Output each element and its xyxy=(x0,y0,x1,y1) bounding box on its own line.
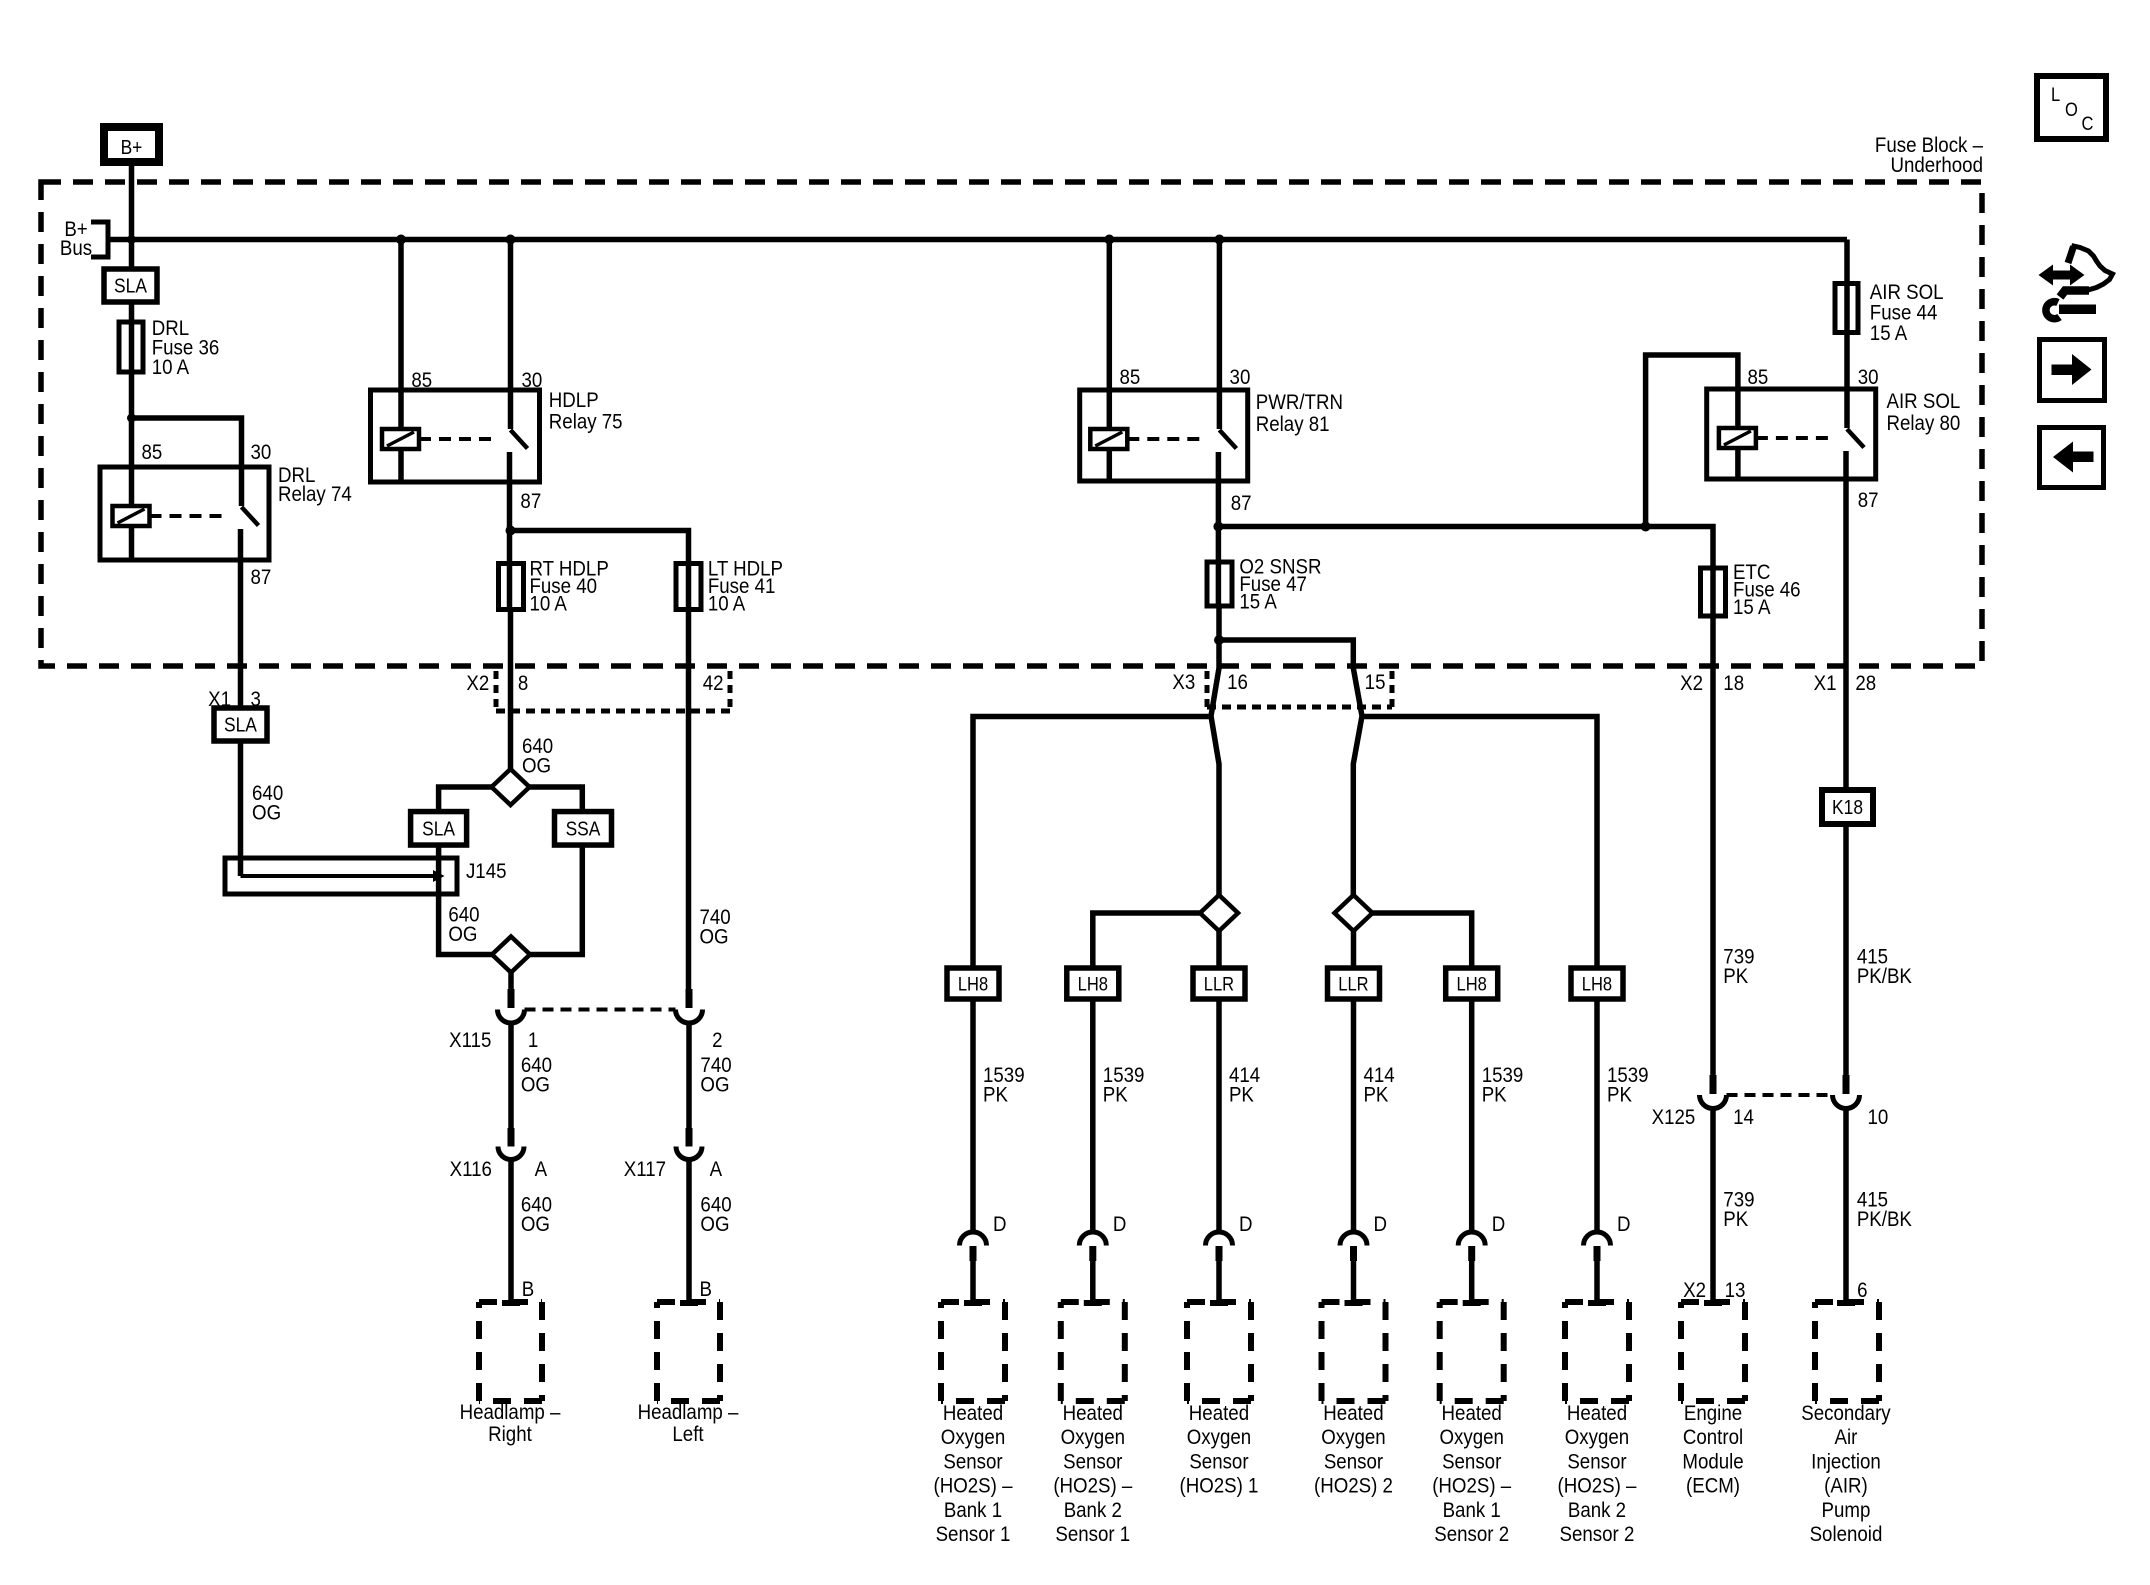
component HO2S dashed box col1 xyxy=(941,1299,1005,1305)
svg-text:(HO2S) –: (HO2S) – xyxy=(1053,1474,1133,1497)
wire end at headlamp right xyxy=(502,1300,520,1306)
svg-text:OG: OG xyxy=(700,1073,729,1096)
svg-text:A: A xyxy=(710,1158,723,1181)
svg-text:LH8: LH8 xyxy=(958,973,988,994)
svg-text:AIR SOL: AIR SOL xyxy=(1887,390,1961,413)
fuse RT HDLP Fuse 40 xyxy=(499,564,524,610)
wire ETC fuse down to X125-14 xyxy=(1710,617,1716,1076)
svg-text:30: 30 xyxy=(1230,366,1251,389)
wire X117 to headlamp left xyxy=(686,1160,692,1303)
svg-text:Oxygen: Oxygen xyxy=(1439,1426,1503,1449)
wire AIR SOL relay 87 down to X125-10 xyxy=(1843,479,1849,1076)
svg-text:B+: B+ xyxy=(121,136,143,158)
svg-text:HDLP: HDLP xyxy=(549,389,599,412)
svg-text:87: 87 xyxy=(1858,489,1879,512)
svg-text:Headlamp –: Headlamp – xyxy=(638,1401,740,1424)
svg-text:LH8: LH8 xyxy=(1457,973,1487,994)
svg-text:Bank 2: Bank 2 xyxy=(1064,1499,1122,1522)
svg-text:Headlamp –: Headlamp – xyxy=(460,1401,562,1424)
fuse O2 SNSR Fuse 47 xyxy=(1207,562,1232,606)
svg-text:Relay 81: Relay 81 xyxy=(1256,413,1330,436)
svg-text:Heated: Heated xyxy=(1567,1402,1627,1425)
svg-text:10 A: 10 A xyxy=(529,593,567,616)
component Headlamp - Left (dashed) xyxy=(657,1299,720,1305)
svg-text:B: B xyxy=(522,1278,534,1301)
relay AIR SOL Relay 80 coil wire (pin 85) xyxy=(1735,389,1741,428)
wire D connector to sensor box col4 xyxy=(1351,1261,1357,1302)
splice diamond B (640 OG) xyxy=(492,937,530,973)
connector D col5 female terminal xyxy=(1458,1232,1485,1246)
wire PWR/TRN 87 junction to AIR SOL coil branch xyxy=(1218,524,1645,530)
relay HDLP Relay 75 switch output contact (pin 87) xyxy=(507,452,513,482)
svg-text:OG: OG xyxy=(700,1213,729,1236)
wire diamond C down to LLR xyxy=(1216,931,1222,968)
svg-text:LH8: LH8 xyxy=(1078,973,1108,994)
wire SLA to DRL fuse and relay pin 85 xyxy=(129,302,135,467)
svg-text:30: 30 xyxy=(250,441,271,464)
connector D col5 male terminal xyxy=(1468,1246,1475,1261)
svg-text:(ECM): (ECM) xyxy=(1686,1474,1740,1497)
relay PWR/TRN Relay 81 switch blade xyxy=(1219,430,1236,449)
svg-text:Bus: Bus xyxy=(60,237,92,260)
wire D connector to sensor box col6 xyxy=(1594,1261,1600,1302)
svg-text:D: D xyxy=(1113,1213,1127,1236)
component HO2S dashed box col4 xyxy=(1322,1299,1386,1305)
node PWR/TRN 87 junction xyxy=(1213,522,1223,532)
wire bus to HDLP relay pin 30 xyxy=(508,240,514,391)
connector X115 pin 2 female terminal xyxy=(676,1010,703,1024)
svg-text:SLA: SLA xyxy=(422,817,455,839)
svg-text:Underhood: Underhood xyxy=(1890,154,1983,177)
wire LH8 col5 down to D connector xyxy=(1469,999,1475,1231)
svg-text:SSA: SSA xyxy=(566,817,601,839)
svg-text:(HO2S) –: (HO2S) – xyxy=(1432,1474,1512,1497)
wire X3-16 branch left to HO2S bank1 sensor1 xyxy=(973,717,1211,969)
svg-text:K18: K18 xyxy=(1832,796,1863,818)
component-view icon (arrows and wrench) xyxy=(2039,246,2113,319)
svg-text:OG: OG xyxy=(252,801,281,824)
wire diamond A left branch to SLA xyxy=(439,787,492,814)
wire end at sensor col2 xyxy=(1084,1300,1102,1306)
svg-text:LLR: LLR xyxy=(1204,973,1234,994)
J145 internal bus bar xyxy=(241,874,438,878)
svg-text:Bank 1: Bank 1 xyxy=(944,1499,1002,1522)
wire D connector to sensor box col5 xyxy=(1469,1261,1475,1302)
relay DRL Relay 74 box xyxy=(100,467,269,560)
B+ power terminal xyxy=(104,127,159,162)
svg-text:15 A: 15 A xyxy=(1239,591,1277,614)
wire end at sensor col6 xyxy=(1588,1300,1606,1306)
svg-text:Heated: Heated xyxy=(943,1402,1003,1425)
fuse ETC Fuse 46 xyxy=(1701,568,1726,616)
svg-text:15 A: 15 A xyxy=(1870,322,1908,345)
svg-text:30: 30 xyxy=(1858,366,1879,389)
svg-text:Sensor: Sensor xyxy=(1567,1450,1627,1473)
wire O2 fuse down to X3-16 xyxy=(1211,606,1219,896)
svg-text:Heated: Heated xyxy=(1189,1402,1249,1425)
svg-text:Solenoid: Solenoid xyxy=(1810,1523,1883,1546)
svg-text:OG: OG xyxy=(521,1213,550,1236)
harness code box LH8 col1 xyxy=(947,968,999,999)
node DRL fuse branch xyxy=(127,414,136,423)
svg-text:PK: PK xyxy=(1607,1083,1632,1106)
connector X115 pin 1 female terminal xyxy=(498,1010,525,1024)
svg-text:PWR/TRN: PWR/TRN xyxy=(1256,391,1343,414)
svg-text:X115: X115 xyxy=(449,1029,491,1052)
svg-text:PK/BK: PK/BK xyxy=(1857,965,1913,988)
wire PWR/TRN junction up to AIR SOL relay pin 85 xyxy=(1646,355,1738,527)
svg-text:Control: Control xyxy=(1683,1426,1743,1449)
svg-text:85: 85 xyxy=(1747,366,1768,389)
svg-text:15 A: 15 A xyxy=(1733,596,1771,619)
relay AIR SOL Relay 80 coil wire below xyxy=(1735,448,1741,479)
svg-text:15: 15 xyxy=(1365,671,1386,694)
svg-text:OG: OG xyxy=(699,925,728,948)
svg-text:Bank 2: Bank 2 xyxy=(1568,1499,1626,1522)
svg-text:Relay 80: Relay 80 xyxy=(1887,412,1961,435)
SLA box lower xyxy=(214,708,267,741)
connector X3 dashed box xyxy=(1205,671,1210,707)
svg-text:X116: X116 xyxy=(450,1158,492,1181)
node bus / PWRTRN 30 xyxy=(1214,235,1224,245)
component HO2S dashed box col3 xyxy=(1187,1299,1251,1305)
harness code box LLR col4 xyxy=(1328,968,1380,999)
wire end at sensor col1 xyxy=(964,1300,982,1306)
wire D connector to sensor box col1 xyxy=(970,1261,976,1302)
svg-text:D: D xyxy=(993,1213,1007,1236)
svg-text:PK: PK xyxy=(983,1083,1008,1106)
connector D col3 female terminal xyxy=(1206,1232,1233,1246)
fuse AIR SOL Fuse 44 xyxy=(1835,284,1858,333)
wire RT HDLP fuse to splice diamond A xyxy=(508,612,514,772)
svg-text:87: 87 xyxy=(1231,492,1252,515)
component Engine Control Module (dashed) xyxy=(1681,1299,1745,1305)
svg-text:D: D xyxy=(1373,1213,1387,1236)
SLA box upper xyxy=(104,269,157,302)
connector X115 pin 1 male terminal xyxy=(508,989,515,1008)
component HO2S dashed box col5 xyxy=(1440,1299,1504,1305)
relay PWR/TRN Relay 81 coil xyxy=(1090,429,1127,449)
relay HDLP Relay 75 coil xyxy=(382,429,419,449)
relay PWR/TRN Relay 81 coil wire (pin 85) xyxy=(1107,390,1113,429)
svg-text:Pump: Pump xyxy=(1822,1499,1871,1522)
svg-text:LH8: LH8 xyxy=(1582,973,1612,994)
svg-text:LLR: LLR xyxy=(1338,973,1368,994)
SLA box splice xyxy=(411,812,467,846)
connector X125 pin 10 female terminal xyxy=(1833,1095,1860,1109)
connector D col4 male terminal xyxy=(1350,1246,1357,1261)
wire X3-15 branch right to HO2S bank2 sensor2 xyxy=(1362,717,1597,969)
svg-text:Oxygen: Oxygen xyxy=(941,1426,1005,1449)
svg-text:(AIR): (AIR) xyxy=(1824,1474,1868,1497)
relay DRL Relay 74 coil xyxy=(113,506,150,526)
connector X125 pin 14 female terminal xyxy=(1700,1095,1727,1109)
svg-text:Sensor: Sensor xyxy=(1063,1450,1123,1473)
wire end at sensor col5 xyxy=(1463,1300,1481,1306)
forward arrow legend box xyxy=(2040,340,2105,401)
wire X116 to headlamp right xyxy=(508,1160,514,1303)
relay DRL Relay 74 coil wire below xyxy=(129,526,135,560)
svg-text:87: 87 xyxy=(520,490,541,513)
svg-text:2: 2 xyxy=(712,1029,722,1052)
wire bus to HDLP relay pin 85 xyxy=(398,240,404,391)
svg-text:X1: X1 xyxy=(1814,672,1837,695)
svg-text:Module: Module xyxy=(1682,1450,1743,1473)
svg-text:X2: X2 xyxy=(466,672,489,695)
component HO2S dashed box col6 xyxy=(1565,1299,1629,1305)
svg-text:Sensor: Sensor xyxy=(1324,1450,1384,1473)
relay HDLP Relay 75 coil wire (pin 85) xyxy=(398,390,404,429)
LOC legend box xyxy=(2037,76,2106,139)
svg-text:Sensor: Sensor xyxy=(1442,1450,1502,1473)
svg-text:Oxygen: Oxygen xyxy=(1321,1426,1385,1449)
svg-text:(HO2S) 2: (HO2S) 2 xyxy=(1314,1474,1393,1497)
svg-text:Heated: Heated xyxy=(1063,1402,1123,1425)
connector X115 dashed pairing line xyxy=(525,1008,676,1012)
connector D col6 female terminal xyxy=(1584,1232,1611,1246)
wire LH8 col6 down to D connector xyxy=(1594,999,1600,1231)
connector X125 dashed pairing line xyxy=(1727,1093,1834,1097)
component Secondary Air Injection Pump Solenoid (dashed) xyxy=(1815,1299,1879,1305)
wire diamond D right branch to LH8 (bank1 sensor2) xyxy=(1373,913,1472,968)
relay PWR/TRN Relay 81 box xyxy=(1080,390,1248,481)
wire LH8 col2 down to D connector xyxy=(1090,999,1096,1231)
svg-text:1: 1 xyxy=(528,1029,538,1052)
relay PWR/TRN Relay 81 switch fixed contact (pin 30) xyxy=(1217,390,1223,429)
B+ Bus bracket symbol xyxy=(91,222,108,257)
SSA box splice xyxy=(555,812,612,846)
svg-text:85: 85 xyxy=(141,441,162,464)
svg-text:A: A xyxy=(535,1158,548,1181)
wire DRL relay 87 down to X1-3 xyxy=(238,560,244,711)
svg-text:Sensor: Sensor xyxy=(1189,1450,1249,1473)
svg-text:Air: Air xyxy=(1835,1426,1858,1449)
relay DRL Relay 74 switch blade xyxy=(242,507,259,526)
svg-text:D: D xyxy=(1239,1213,1253,1236)
svg-text:Relay 74: Relay 74 xyxy=(278,483,352,506)
J145 arrow to output xyxy=(433,870,445,882)
svg-text:10: 10 xyxy=(1868,1106,1889,1129)
svg-text:18: 18 xyxy=(1723,672,1744,695)
wire end at ECM xyxy=(1704,1300,1722,1306)
relay HDLP Relay 75 dashed actuator link xyxy=(419,437,497,441)
wire X125-14 to ECM xyxy=(1710,1109,1716,1303)
harness code box LH8 col6 xyxy=(1571,968,1623,999)
wire B+ bus horizontal xyxy=(108,237,1847,243)
wire SSA splice down to diamond B xyxy=(530,845,583,955)
wire B+ terminal down to B+ bus xyxy=(129,160,135,272)
wire end at sensor col4 xyxy=(1345,1300,1363,1306)
svg-text:B: B xyxy=(700,1278,712,1301)
svg-text:42: 42 xyxy=(703,672,724,695)
relay DRL Relay 74 dashed actuator link xyxy=(150,514,228,518)
wire LT HDLP fuse down to X115 pin 2 xyxy=(686,612,692,990)
connector D col6 male terminal xyxy=(1594,1246,1601,1261)
relay PWR/TRN Relay 81 coil wire below xyxy=(1107,449,1113,481)
connector D col1 female terminal xyxy=(960,1232,987,1246)
connector X116 male terminal xyxy=(508,1128,515,1147)
svg-text:13: 13 xyxy=(1725,1279,1746,1302)
connector X117 female terminal xyxy=(676,1147,702,1160)
svg-text:X117: X117 xyxy=(624,1158,666,1181)
node HDLP relay 87 junction xyxy=(506,526,516,536)
relay HDLP Relay 75 coil wire below xyxy=(398,449,404,482)
K18 box xyxy=(1822,790,1873,824)
wire end at sensor col3 xyxy=(1210,1300,1228,1306)
relay AIR SOL Relay 80 switch fixed contact (pin 30) xyxy=(1844,389,1850,428)
wire SLA lower to J145 xyxy=(238,741,244,876)
wire X125-10 to AIR pump solenoid xyxy=(1843,1109,1849,1303)
relay HDLP Relay 75 switch blade xyxy=(511,430,528,449)
svg-text:PK: PK xyxy=(1482,1083,1507,1106)
relay AIR SOL Relay 80 switch blade xyxy=(1847,429,1864,448)
node AIR SOL coil / ETC junction xyxy=(1641,522,1651,532)
relay HDLP Relay 75 box xyxy=(371,390,540,482)
svg-text:Sensor 1: Sensor 1 xyxy=(936,1523,1011,1546)
fuse LT HDLP Fuse 41 xyxy=(676,564,701,610)
component HO2S dashed box col2 xyxy=(1061,1299,1125,1305)
wire ETC branch down through ETC fuse xyxy=(1646,527,1713,619)
connector D col1 male terminal xyxy=(970,1246,977,1261)
wire bus corner down through AIR SOL fuse 44 to relay 80 pin 30 xyxy=(1844,240,1850,390)
svg-text:D: D xyxy=(1492,1213,1506,1236)
wire PWR/TRN 87 down through O2 SNSR fuse xyxy=(1216,481,1222,608)
svg-text:Sensor 1: Sensor 1 xyxy=(1055,1523,1130,1546)
svg-text:J145: J145 xyxy=(466,860,507,883)
connector X125 pin 14 male terminal xyxy=(1710,1075,1717,1094)
svg-text:10 A: 10 A xyxy=(152,356,190,379)
wire LLR col4 down to D connector xyxy=(1351,999,1357,1231)
svg-text:Secondary: Secondary xyxy=(1801,1402,1891,1425)
svg-text:D: D xyxy=(1617,1213,1631,1236)
svg-text:Sensor 2: Sensor 2 xyxy=(1434,1523,1509,1546)
relay AIR SOL Relay 80 dashed actuator link xyxy=(1756,436,1833,440)
svg-text:28: 28 xyxy=(1855,672,1876,695)
splice diamond A (640 OG) xyxy=(492,769,530,805)
wire branch to DRL relay pin 30 xyxy=(132,418,242,467)
wire LH8 col1 down to D connector xyxy=(970,999,976,1231)
node bus / HDLP 30 xyxy=(506,235,516,245)
svg-text:(HO2S) –: (HO2S) – xyxy=(934,1474,1014,1497)
connector D col3 male terminal xyxy=(1216,1246,1223,1261)
wire diamond D down to LLR xyxy=(1351,931,1357,968)
svg-text:(HO2S) 1: (HO2S) 1 xyxy=(1179,1474,1258,1497)
svg-text:SLA: SLA xyxy=(224,713,257,735)
svg-text:OG: OG xyxy=(522,754,551,777)
svg-text:85: 85 xyxy=(1120,366,1141,389)
svg-text:Heated: Heated xyxy=(1442,1402,1502,1425)
wire branch to X3-15 xyxy=(1219,640,1362,895)
svg-text:X125: X125 xyxy=(1652,1106,1696,1129)
svg-text:Bank 1: Bank 1 xyxy=(1443,1499,1501,1522)
svg-text:X2: X2 xyxy=(1683,1279,1706,1302)
svg-text:Oxygen: Oxygen xyxy=(1061,1426,1125,1449)
svg-text:C: C xyxy=(2081,113,2093,134)
harness code box LH8 col5 xyxy=(1446,968,1498,999)
svg-text:PK: PK xyxy=(1229,1083,1254,1106)
svg-text:Sensor: Sensor xyxy=(943,1450,1003,1473)
wire end at AIR pump solenoid xyxy=(1837,1300,1855,1306)
svg-text:Right: Right xyxy=(488,1423,532,1446)
harness code box LLR col3 xyxy=(1193,968,1245,999)
svg-text:16: 16 xyxy=(1227,671,1248,694)
svg-text:8: 8 xyxy=(518,672,528,695)
relay DRL Relay 74 coil wire (pin 85) xyxy=(129,467,135,506)
wire X115-2 to X117 xyxy=(686,1023,692,1130)
relay DRL Relay 74 switch fixed contact (pin 30) xyxy=(239,467,245,506)
J145 input stub xyxy=(238,856,244,876)
node bus / PWRTRN 85 xyxy=(1104,235,1114,245)
connector D col2 female terminal xyxy=(1079,1232,1106,1246)
wire LLR col3 down to D connector xyxy=(1216,999,1222,1231)
wire diamond C left branch to LH8 (bank2 sensor1) xyxy=(1093,913,1200,968)
svg-text:Relay 75: Relay 75 xyxy=(549,410,623,433)
connector X2 dashed box xyxy=(494,671,499,711)
svg-text:Sensor 2: Sensor 2 xyxy=(1560,1523,1635,1546)
svg-text:Oxygen: Oxygen xyxy=(1565,1426,1629,1449)
wire X115-1 to X116 xyxy=(508,1023,514,1130)
wire D connector to sensor box col2 xyxy=(1090,1261,1096,1302)
svg-text:(HO2S) –: (HO2S) – xyxy=(1557,1474,1637,1497)
svg-text:Oxygen: Oxygen xyxy=(1187,1426,1251,1449)
back arrow legend box xyxy=(2040,428,2104,488)
svg-text:6: 6 xyxy=(1857,1279,1867,1302)
wire HDLP relay 87 junction to LT HDLP fuse xyxy=(511,531,689,613)
splice pack J145 xyxy=(225,858,457,894)
fuse block underhood dashed boundary xyxy=(41,182,1982,666)
svg-text:Left: Left xyxy=(672,1423,704,1446)
svg-text:87: 87 xyxy=(250,566,271,589)
svg-text:14: 14 xyxy=(1733,1106,1754,1129)
svg-text:Heated: Heated xyxy=(1323,1402,1383,1425)
wire end at headlamp left xyxy=(680,1300,698,1306)
svg-text:X2: X2 xyxy=(1680,672,1703,695)
splice diamond D (414 PK) xyxy=(1335,895,1373,931)
wire diamond A right branch to SSA xyxy=(530,787,583,814)
svg-text:X3: X3 xyxy=(1172,671,1195,694)
wire HDLP relay 87 down through RT HDLP fuse to X2-8 xyxy=(507,482,513,612)
wire bus to PWR/TRN relay pin 85 xyxy=(1107,240,1113,391)
connector D col4 female terminal xyxy=(1340,1232,1367,1246)
harness code box LH8 col2 xyxy=(1067,968,1119,999)
svg-text:L: L xyxy=(2051,84,2060,105)
relay AIR SOL Relay 80 switch output contact (pin 87) xyxy=(1843,451,1849,479)
relay HDLP Relay 75 switch fixed contact (pin 30) xyxy=(508,390,514,429)
svg-text:PK/BK: PK/BK xyxy=(1857,1208,1913,1231)
wire bus to PWR/TRN relay pin 30 xyxy=(1217,240,1223,391)
node bus / B+ feed xyxy=(127,235,136,244)
svg-text:SLA: SLA xyxy=(114,274,147,296)
node O2 fuse branch to pin 15 xyxy=(1214,635,1224,645)
svg-text:PK: PK xyxy=(1363,1083,1388,1106)
fuse DRL Fuse 36 xyxy=(119,322,143,372)
component Headlamp - Right (dashed) xyxy=(479,1299,542,1305)
connector X117 male terminal xyxy=(686,1128,693,1147)
wire SLA splice down through J145 to diamond B xyxy=(439,845,493,955)
relay AIR SOL Relay 80 coil xyxy=(1719,428,1756,448)
connector D col2 male terminal xyxy=(1089,1246,1096,1261)
svg-text:PK: PK xyxy=(1723,1208,1748,1231)
svg-text:Injection: Injection xyxy=(1811,1450,1881,1473)
relay PWR/TRN Relay 81 switch output contact (pin 87) xyxy=(1216,452,1222,481)
relay AIR SOL Relay 80 box xyxy=(1707,389,1876,479)
splice diamond C (414 PK) xyxy=(1200,895,1238,931)
svg-text:O: O xyxy=(2065,99,2078,120)
node bus / HDLP 85 xyxy=(396,235,406,245)
relay DRL Relay 74 switch output contact (pin 87) xyxy=(238,529,244,560)
svg-text:OG: OG xyxy=(448,923,477,946)
wire D connector to sensor box col3 xyxy=(1216,1261,1222,1302)
